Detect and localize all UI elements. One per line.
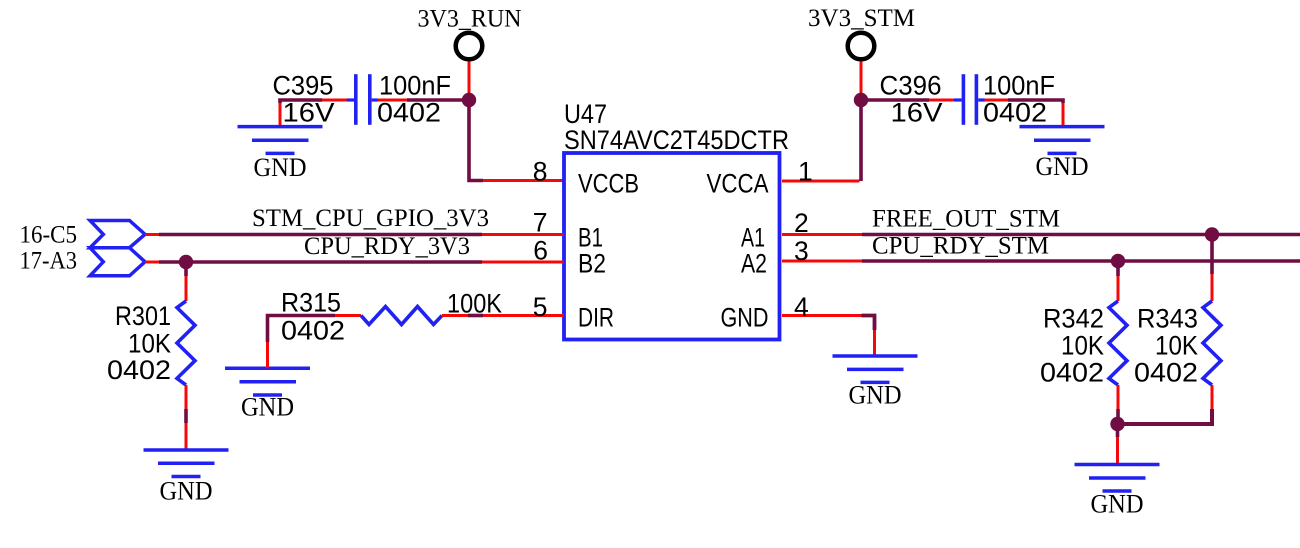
svg-text:C396: C396 [880, 71, 942, 101]
wire junction to R301 [184, 262, 188, 276]
svg-text:GND: GND [721, 303, 769, 333]
wire [929, 99, 955, 102]
sheet entry chevron 17-A3 [90, 248, 145, 276]
wire power to junction [860, 62, 863, 96]
ground GND under C395 [238, 127, 323, 154]
resistor R315 [361, 307, 442, 325]
wire [1062, 103, 1065, 126]
wire [377, 99, 407, 102]
wire [873, 330, 876, 356]
capacitor C396 leads [954, 98, 962, 101]
wire [280, 100, 322, 103]
svg-text:B2: B2 [578, 249, 606, 279]
wire [483, 314, 564, 317]
svg-text:5: 5 [533, 292, 548, 322]
svg-text:R343: R343 [1137, 304, 1198, 334]
svg-text:10K: 10K [1155, 331, 1198, 361]
wire [1116, 409, 1120, 424]
svg-text:GND: GND [1091, 490, 1144, 519]
svg-text:17-A3: 17-A3 [20, 248, 78, 275]
capacitor C395 leads [347, 98, 355, 101]
wire junction to GND [1116, 424, 1120, 437]
wire [159, 260, 482, 264]
wire GND up to R315 [266, 342, 269, 368]
ground GND for R315 [225, 368, 310, 395]
ground GND under R301 [144, 450, 229, 477]
wire R343 to junction [1211, 385, 1214, 409]
wire [185, 423, 188, 450]
svg-text:GND: GND [1036, 152, 1089, 181]
wire B2 net [145, 261, 159, 264]
svg-text:STM_CPU_GPIO_3V3: STM_CPU_GPIO_3V3 [252, 205, 489, 232]
wire [185, 276, 188, 301]
power 3V3_RUN circle [456, 33, 483, 60]
svg-text:100nF: 100nF [379, 71, 451, 101]
wire [862, 233, 1300, 237]
resistor R342 [1109, 301, 1127, 385]
svg-text:10K: 10K [128, 328, 171, 358]
svg-text:4: 4 [794, 292, 809, 322]
svg-text:C395: C395 [273, 71, 334, 101]
wire [159, 233, 482, 237]
wire [482, 233, 564, 236]
power 3V3_STM circle [848, 33, 875, 60]
svg-text:DIR: DIR [578, 303, 614, 333]
svg-text:16-C5: 16-C5 [20, 222, 78, 249]
svg-text:GND: GND [160, 477, 213, 506]
wire pin 2 net FREE_OUT_STM [782, 233, 862, 236]
wire C396 to GND corner [985, 99, 1009, 102]
svg-text:3V3_STM: 3V3_STM [808, 5, 915, 32]
svg-text:R342: R342 [1043, 304, 1104, 334]
svg-text:GND: GND [241, 393, 294, 422]
node junction 3V3_STM [854, 93, 868, 107]
wire [335, 314, 361, 317]
wire junction to C395 [407, 98, 469, 102]
wire pin 4 to GND [782, 314, 862, 317]
wire junction to C396 [861, 98, 929, 102]
node junction 3V3_RUN [462, 93, 476, 107]
wire [468, 314, 483, 318]
wire junction to R343 [1210, 235, 1214, 275]
op-amp U47 box [564, 153, 780, 340]
wire B1 net [145, 233, 159, 236]
svg-text:GND: GND [254, 153, 307, 182]
wire [862, 316, 875, 331]
svg-text:2: 2 [794, 208, 809, 238]
capacitor C396 plates [962, 74, 966, 125]
wire [1116, 437, 1119, 465]
wire [482, 261, 564, 264]
svg-text:SN74AVC2T45DCTR: SN74AVC2T45DCTR [564, 125, 789, 155]
resistor R343 [1203, 301, 1221, 385]
svg-text:0402: 0402 [377, 97, 441, 127]
svg-text:0402: 0402 [107, 355, 171, 385]
resistor R301 [177, 301, 195, 385]
wire junction down to pin 1 [859, 100, 863, 181]
wire pin 8 [483, 179, 564, 182]
wire R342 to junction [1117, 385, 1120, 409]
wire pin 3 net CPU_RDY_STM [782, 260, 862, 263]
svg-text:CPU_RDY_3V3: CPU_RDY_3V3 [304, 233, 470, 260]
svg-text:1: 1 [798, 157, 813, 187]
svg-text:R301: R301 [115, 301, 171, 331]
svg-text:0402: 0402 [983, 97, 1047, 127]
node junction R301 [179, 255, 193, 269]
svg-text:3: 3 [794, 236, 809, 266]
node junction R342 [1111, 254, 1125, 268]
svg-text:16V: 16V [891, 97, 943, 127]
wire [862, 259, 1300, 263]
svg-text:FREE_OUT_STM: FREE_OUT_STM [872, 206, 1060, 233]
wire power to junction [468, 62, 471, 96]
wire [1008, 100, 1063, 103]
svg-text:R315: R315 [281, 288, 341, 318]
wire pin 1 [782, 180, 860, 183]
svg-text:0402: 0402 [281, 316, 345, 346]
svg-text:VCCA: VCCA [707, 169, 769, 199]
wire [268, 316, 336, 343]
wire R315 to DIR pin 5 [442, 314, 468, 317]
capacitor C395 plates [354, 74, 358, 125]
node junction bottom right [1110, 417, 1124, 431]
svg-text:6: 6 [533, 236, 548, 266]
node junction R343 [1205, 227, 1219, 241]
wire C395 to GND corner [321, 99, 347, 102]
wire junction down to pin 8 [469, 100, 483, 181]
wire [1211, 274, 1214, 301]
svg-text:A2: A2 [741, 249, 767, 279]
svg-text:VCCB: VCCB [578, 169, 639, 199]
wire [1118, 409, 1212, 424]
wire [279, 103, 282, 126]
wire junction to R342 [1116, 261, 1120, 276]
wire [1117, 276, 1120, 301]
ground GND under pin 4 [833, 356, 918, 382]
ground GND bottom right [1075, 465, 1160, 492]
ground GND under C396 [1020, 127, 1105, 154]
svg-text:0402: 0402 [1134, 358, 1198, 388]
svg-text:8: 8 [533, 157, 548, 187]
svg-text:100nF: 100nF [983, 71, 1055, 101]
svg-text:GND: GND [849, 381, 902, 410]
svg-text:7: 7 [533, 208, 548, 238]
wire [184, 409, 188, 423]
sheet entry chevron 16-C5 [90, 221, 145, 248]
svg-text:16V: 16V [283, 97, 335, 127]
wire R301 to GND [185, 385, 188, 409]
svg-text:3V3_RUN: 3V3_RUN [418, 6, 522, 33]
svg-text:CPU_RDY_STM: CPU_RDY_STM [872, 233, 1049, 260]
svg-text:0402: 0402 [1040, 358, 1104, 388]
svg-text:10K: 10K [1061, 331, 1104, 361]
